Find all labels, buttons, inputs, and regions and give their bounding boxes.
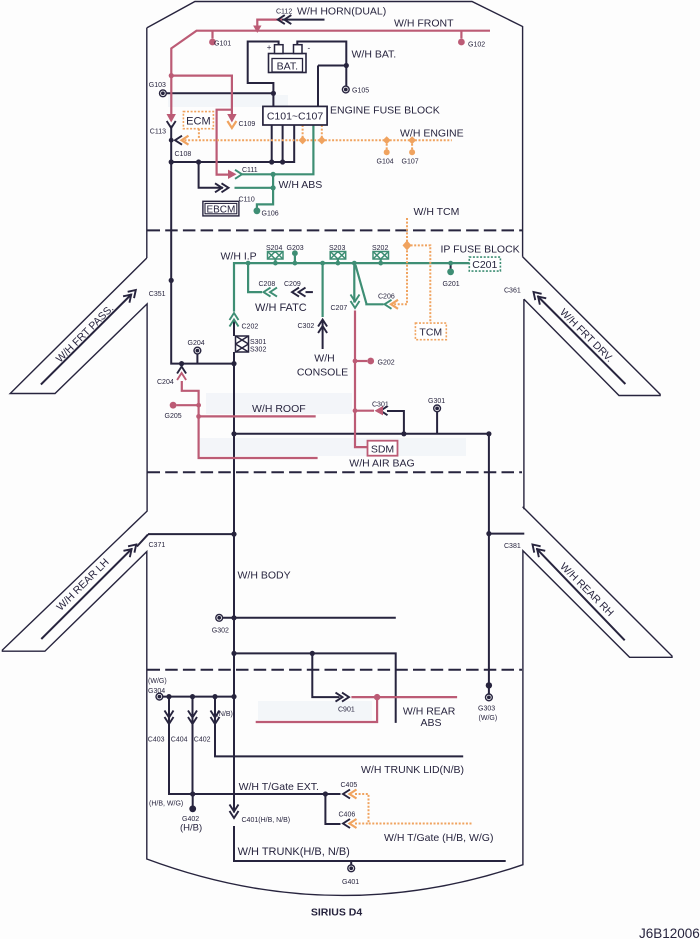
svg-text:C208: C208 xyxy=(259,281,276,288)
svg-text:W/H ROOF: W/H ROOF xyxy=(252,403,306,415)
svg-text:G204: G204 xyxy=(188,340,205,347)
svg-text:G302: G302 xyxy=(212,628,229,635)
svg-text:CONSOLE: CONSOLE xyxy=(297,367,348,379)
svg-text:G107: G107 xyxy=(402,159,419,166)
svg-text:SIRIUS D4: SIRIUS D4 xyxy=(311,907,363,919)
svg-text:W/H: W/H xyxy=(314,353,334,365)
svg-text:W/H TCM: W/H TCM xyxy=(414,206,460,218)
svg-text:C401(H/B, N/B): C401(H/B, N/B) xyxy=(242,817,291,824)
svg-text:W/H ENGINE: W/H ENGINE xyxy=(400,128,464,140)
svg-text:IP FUSE BLOCK: IP FUSE BLOCK xyxy=(441,244,520,256)
svg-text:S203: S203 xyxy=(329,245,345,252)
svg-text:G101: G101 xyxy=(214,41,231,48)
svg-text:C371: C371 xyxy=(149,542,166,549)
svg-text:C402: C402 xyxy=(194,737,211,744)
svg-text:W/H ABS: W/H ABS xyxy=(279,179,323,191)
svg-text:C206: C206 xyxy=(378,294,395,301)
svg-text:W/H REAR: W/H REAR xyxy=(403,706,456,718)
svg-text:G301: G301 xyxy=(428,398,445,405)
svg-text:W/H BAT.: W/H BAT. xyxy=(352,49,397,61)
svg-text:G105: G105 xyxy=(352,88,369,95)
svg-text:G401: G401 xyxy=(342,879,359,886)
svg-text:C351: C351 xyxy=(149,291,166,298)
svg-text:EBCM: EBCM xyxy=(206,205,235,216)
svg-text:G203: G203 xyxy=(287,245,304,252)
svg-text:C302: C302 xyxy=(298,323,315,330)
svg-text:G304: G304 xyxy=(148,688,165,695)
svg-text:+: + xyxy=(267,43,272,52)
svg-text:C404: C404 xyxy=(171,737,188,744)
svg-text:S204: S204 xyxy=(266,245,282,252)
svg-text:C108: C108 xyxy=(175,151,192,158)
svg-text:C112: C112 xyxy=(276,9,292,16)
svg-text:C406: C406 xyxy=(339,812,356,819)
svg-text:W/H BODY: W/H BODY xyxy=(238,570,291,582)
svg-text:W/H T/Gate (H/B, W/G): W/H T/Gate (H/B, W/G) xyxy=(384,832,493,844)
svg-text:(W/G): (W/G) xyxy=(479,715,498,722)
svg-text:ECM: ECM xyxy=(186,115,210,127)
svg-text:W/H FATC: W/H FATC xyxy=(255,302,307,314)
svg-text:G102: G102 xyxy=(468,42,485,49)
svg-text:C110: C110 xyxy=(239,197,255,204)
svg-text:ENGINE FUSE BLOCK: ENGINE FUSE BLOCK xyxy=(330,105,440,117)
svg-text:G103: G103 xyxy=(149,82,166,89)
svg-text:G303: G303 xyxy=(478,706,495,713)
svg-text:S301: S301 xyxy=(250,339,266,346)
svg-text:SDM: SDM xyxy=(371,443,394,455)
svg-text:C101~C107: C101~C107 xyxy=(267,111,323,123)
svg-text:-: - xyxy=(308,44,311,53)
svg-text:G106: G106 xyxy=(262,211,279,218)
svg-text:W/H AIR BAG: W/H AIR BAG xyxy=(349,458,414,470)
svg-text:C361: C361 xyxy=(504,288,521,295)
svg-text:W/H T/Gate EXT.: W/H T/Gate EXT. xyxy=(239,781,319,793)
svg-text:W/H TRUNK LID(N/B): W/H TRUNK LID(N/B) xyxy=(361,764,464,776)
svg-text:G201: G201 xyxy=(443,281,460,288)
svg-text:C405: C405 xyxy=(341,782,358,789)
svg-text:C204: C204 xyxy=(157,379,174,386)
svg-text:W/H TRUNK(H/B, N/B): W/H TRUNK(H/B, N/B) xyxy=(238,846,350,858)
svg-text:(W/G): (W/G) xyxy=(148,678,167,685)
svg-text:C403: C403 xyxy=(148,737,165,744)
svg-text:W/H FRT DRV.: W/H FRT DRV. xyxy=(557,307,615,365)
svg-text:W/H HORN(DUAL): W/H HORN(DUAL) xyxy=(297,6,386,18)
svg-text:C381: C381 xyxy=(504,543,521,550)
svg-text:W/H FRT PASS.: W/H FRT PASS. xyxy=(54,303,117,366)
svg-text:S202: S202 xyxy=(372,245,388,252)
svg-text:C901: C901 xyxy=(338,707,355,714)
svg-text:J6B12006: J6B12006 xyxy=(639,926,700,939)
svg-text:(N/B): (N/B) xyxy=(217,711,233,718)
svg-text:ABS: ABS xyxy=(420,717,441,729)
svg-text:W/H REAR LH: W/H REAR LH xyxy=(54,556,111,613)
svg-text:G205: G205 xyxy=(165,413,182,420)
svg-text:G202: G202 xyxy=(378,360,395,367)
svg-text:C113: C113 xyxy=(150,129,166,136)
svg-text:C201: C201 xyxy=(472,259,497,271)
svg-text:BAT.: BAT. xyxy=(277,61,298,73)
svg-text:(H/B): (H/B) xyxy=(180,823,202,834)
svg-text:W/H REAR RH: W/H REAR RH xyxy=(557,561,615,619)
svg-text:TCM: TCM xyxy=(419,327,442,339)
svg-text:C209: C209 xyxy=(284,281,301,288)
svg-text:G104: G104 xyxy=(377,159,394,166)
svg-text:C109: C109 xyxy=(239,121,256,128)
svg-text:C301: C301 xyxy=(372,402,389,409)
svg-text:W/H FRONT: W/H FRONT xyxy=(394,18,454,30)
svg-text:C111: C111 xyxy=(242,167,258,174)
svg-text:C207: C207 xyxy=(331,305,348,312)
svg-text:W/H I.P: W/H I.P xyxy=(221,251,257,263)
svg-text:C202: C202 xyxy=(242,324,259,331)
svg-text:(H/B, W/G): (H/B, W/G) xyxy=(149,801,183,808)
svg-text:S302: S302 xyxy=(250,347,266,354)
